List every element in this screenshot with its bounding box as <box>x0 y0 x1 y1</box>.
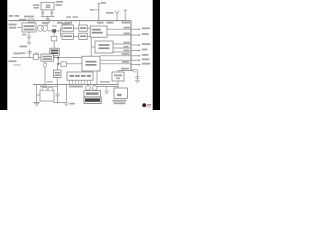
crystal symbol <box>46 4 50 8</box>
wire: main wire1 <box>12 57 82 59</box>
pin stub P2 <box>131 34 139 36</box>
rectifier box text <box>24 25 35 27</box>
series box on wire2 <box>61 62 66 67</box>
wire: U2 out2 <box>113 47 131 49</box>
capacitor C7 chain <box>53 85 66 103</box>
supply arrow VDD <box>115 11 119 21</box>
wire: gnd drop <box>65 85 67 103</box>
faint label wire1 lower <box>14 64 21 65</box>
wire: +5V supply drop <box>98 4 100 21</box>
PWM box <box>50 48 59 55</box>
wire: transformer output <box>48 30 61 32</box>
wire: U3 to rail2 <box>96 71 98 85</box>
left black bar <box>0 0 7 110</box>
pin stub P6 <box>131 59 139 61</box>
node J1 <box>57 57 59 59</box>
wire: transformer to rail diagonal <box>47 21 50 26</box>
label VDD <box>106 12 114 14</box>
pin labels right <box>142 27 150 29</box>
wire: top AC rail <box>9 20 132 22</box>
box U1 timing generator <box>90 26 107 37</box>
pin stub P3 <box>131 44 139 46</box>
box C divider <box>79 25 87 31</box>
wire: branch vertical to A B <box>60 28 62 36</box>
label wire1 left <box>14 53 22 55</box>
pin stub P7 <box>131 64 139 66</box>
U3 out labels <box>122 53 130 55</box>
wire: D to U1 <box>87 35 90 37</box>
pin stubs with arrows on right bus <box>131 28 141 66</box>
display link to U3 <box>84 71 90 72</box>
induction coil dark text <box>85 98 100 101</box>
wire: crystal left leg <box>42 10 44 12</box>
wire: B to D <box>73 35 78 37</box>
box induction coil <box>84 97 101 103</box>
box comparator <box>53 70 61 78</box>
right black bar <box>153 0 160 110</box>
transformer T1 <box>37 25 43 31</box>
series box on wire1 <box>33 54 38 59</box>
wire: C to U1 <box>87 27 90 29</box>
fuse F1 on rail <box>29 19 35 22</box>
resistor R1 drop <box>44 61 46 84</box>
cap k1 on top <box>42 88 47 91</box>
node plus mark <box>98 2 100 4</box>
capacitor C2 <box>50 13 53 14</box>
box A osc <box>62 25 73 31</box>
wire: AC IN arrow <box>17 27 22 29</box>
box U2 modulator <box>95 41 113 53</box>
wire: top link <box>42 86 58 88</box>
box relay <box>112 72 124 81</box>
label AC IN <box>9 24 17 26</box>
PWM box dark text <box>51 50 58 52</box>
coil driver text <box>86 92 99 94</box>
wire: PWM to main wire <box>53 55 55 57</box>
ground center bottom <box>64 103 69 105</box>
wire: bottom link <box>97 86 118 88</box>
wire: U1 out2 <box>107 34 131 36</box>
wire: U3 out mid <box>100 59 131 61</box>
box driver <box>41 54 53 61</box>
U1 out labels <box>124 27 131 29</box>
node junction blob <box>52 29 56 32</box>
inductor L1 on rail <box>19 19 26 21</box>
box plug <box>114 88 127 98</box>
ground left bottom <box>34 104 39 106</box>
pin stub P5 <box>131 55 139 57</box>
U1 text <box>92 29 101 31</box>
pin stub P4 <box>131 49 139 51</box>
display box text <box>70 75 75 77</box>
display pins comb <box>70 80 91 84</box>
label AC line top <box>9 15 13 17</box>
wire: J2 drop <box>56 64 58 70</box>
plug box inner mark <box>117 94 122 96</box>
label under rail pins <box>42 22 49 24</box>
sense box on drop <box>51 36 57 41</box>
box U3 controller <box>82 56 100 71</box>
relay label <box>121 68 129 70</box>
ground under crystal <box>46 16 50 20</box>
rectifier box <box>22 23 36 32</box>
wire: bus to relay <box>118 71 131 72</box>
label under display <box>69 86 83 88</box>
box A text <box>63 27 72 29</box>
capacitor C1 <box>41 13 44 14</box>
box B text <box>63 35 72 37</box>
watermark logo <box>142 103 151 107</box>
box D text <box>80 35 86 37</box>
resistor R2 <box>131 70 137 72</box>
circuit schematic page <box>0 0 160 110</box>
driver box text <box>43 56 53 58</box>
wire: rail stubs to A and C <box>72 21 80 25</box>
wire: U2 out1 <box>113 43 131 45</box>
wire: crystal bottom rail <box>41 15 55 17</box>
wire: crystal right leg <box>51 10 53 12</box>
labels above rail mid <box>67 16 72 18</box>
relay box text <box>114 74 122 76</box>
U2 out labels <box>124 42 131 44</box>
label above small box wire1 <box>34 53 39 54</box>
ground bottom right <box>135 80 140 82</box>
plug label <box>113 100 127 102</box>
U3 text <box>86 61 97 63</box>
wire: stub into U2 <box>91 46 95 48</box>
wire: U2 out3 <box>113 51 131 53</box>
wire: bottom rail2 <box>33 84 118 86</box>
capacitor C3 drop <box>28 49 32 57</box>
wire: wire2 to U3 <box>58 63 82 65</box>
box display <box>67 72 93 80</box>
supply stub VSS <box>124 10 127 20</box>
comparator box text <box>55 72 60 74</box>
capacitor C5 tick <box>94 9 99 11</box>
label near rail2 <box>47 81 53 83</box>
fan motor M1 <box>88 85 95 86</box>
wire: J1 to J2 <box>57 58 59 64</box>
crystal box Y1 <box>41 2 54 10</box>
label crystal right <box>56 1 64 3</box>
wire: junction drop <box>53 33 55 49</box>
wire: relay down <box>117 81 119 88</box>
box D divider <box>79 33 87 39</box>
label C6 <box>22 34 27 36</box>
ground tap <box>104 87 109 94</box>
capacitor C8 <box>135 72 139 80</box>
ground under C6 <box>27 42 32 44</box>
wire: comparator to rail2 <box>56 78 58 85</box>
pin stub P1 <box>131 28 139 30</box>
label C3 node <box>20 46 28 48</box>
box coil driver <box>84 91 101 97</box>
capacitor C6 chain under rectifier <box>27 32 31 42</box>
label above rail right <box>100 81 110 83</box>
label above junction <box>52 25 57 26</box>
text smudges <box>9 1 151 105</box>
wire: U3 out low <box>100 63 131 65</box>
wire: A to C <box>73 27 78 29</box>
node J2 <box>57 63 59 65</box>
wire: U1 down to B2 <box>90 37 92 56</box>
label above A <box>62 23 70 25</box>
wire: U1 out1 <box>107 28 131 30</box>
ground label <box>70 103 76 105</box>
wire: keypad left drop <box>33 85 40 103</box>
box C text <box>80 27 86 29</box>
cap k2 on top <box>48 88 53 91</box>
background <box>0 0 160 110</box>
label 5V <box>101 2 107 4</box>
wire: U3 out top <box>100 55 131 57</box>
box B osc2 <box>62 33 73 39</box>
U2 text <box>99 44 110 46</box>
bus: right pin bus <box>130 21 132 71</box>
box keypad <box>40 90 54 101</box>
label crystal left <box>33 4 40 6</box>
